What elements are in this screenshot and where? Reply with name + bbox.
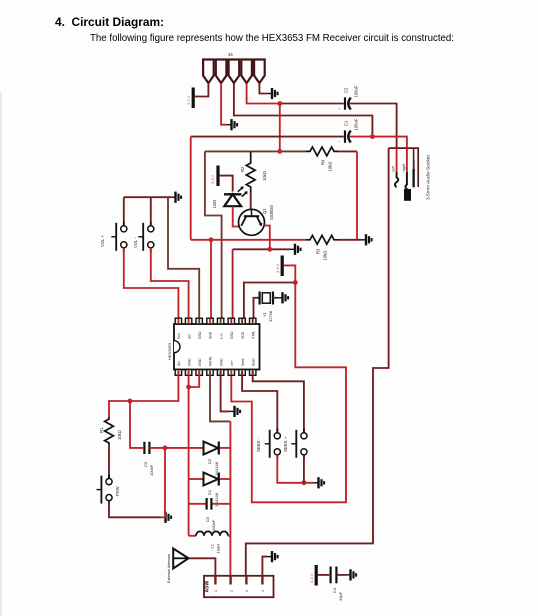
svg-text:sleeve: sleeve [411, 160, 416, 171]
wire VOL rail to T3 [168, 197, 199, 322]
resistor R3 [306, 235, 338, 260]
junction C1 row [370, 134, 375, 139]
wire node down to C3 [130, 401, 143, 448]
svg-text:VDD: VDD [241, 331, 245, 339]
svg-text:10kΩ: 10kΩ [323, 251, 328, 261]
svg-text:D1: D1 [207, 489, 212, 495]
wire VDD bar to junction [284, 265, 296, 282]
wire B4 to right column [210, 371, 230, 421]
svg-text:GND: GND [230, 331, 234, 339]
svg-text:LED: LED [212, 200, 217, 208]
svg-text:C3: C3 [143, 461, 148, 467]
wire C3 to D2 [149, 447, 203, 449]
LED D3 [212, 186, 248, 208]
wire VOL ground rail [124, 196, 171, 198]
wire VOL- to T2 [151, 248, 189, 322]
wire 3.3V bar to C4 [318, 574, 329, 576]
ground at R3 [361, 234, 372, 245]
resistor R2 [240, 151, 267, 193]
transistor Q1 [239, 204, 275, 235]
wire B2 down [188, 371, 190, 536]
wire battery to J1 pin1 [195, 84, 209, 97]
svg-text:C5: C5 [205, 516, 210, 522]
svg-text:C4: C4 [332, 587, 337, 593]
svg-text:SS8050: SS8050 [269, 204, 274, 220]
svg-text:right: right [401, 163, 406, 171]
wire VDD down right loop [231, 283, 346, 503]
ground at J1 pin5 [267, 88, 278, 99]
diode D2 [204, 442, 220, 477]
svg-text:10uH: 10uH [216, 544, 221, 554]
crystal Y1 [254, 292, 278, 323]
inductor L1 [189, 531, 231, 553]
IC U1 HEX3653 [167, 318, 260, 375]
svg-text:XTAL: XTAL [251, 331, 255, 339]
junction B1 row [128, 399, 133, 404]
wire J1 pin2 to ground [221, 84, 226, 125]
svg-text:External Antenna: External Antenna [167, 553, 171, 583]
capacitor C2 [339, 85, 359, 111]
pushbutton PSW [97, 474, 121, 504]
svg-text:1N4148: 1N4148 [214, 492, 219, 507]
audio socket J2 [389, 148, 432, 201]
ground at VOL rail [171, 192, 182, 203]
power 3.3V LED bar [210, 166, 220, 187]
wire C3 junction to ground [161, 448, 166, 517]
capacitor C4 [331, 567, 343, 602]
svg-text:GND: GND [219, 358, 223, 366]
pushbutton VOL- [133, 222, 154, 252]
power 3.3V VDD bar [275, 256, 284, 277]
svg-text:3.3 V: 3.3 V [275, 263, 280, 273]
svg-text:R4: R4 [321, 159, 326, 165]
svg-text:C1: C1 [344, 120, 349, 126]
power 3.3V C4 bar [309, 565, 318, 586]
svg-text:100uF: 100uF [354, 85, 359, 97]
svg-text:PSW: PSW [115, 486, 120, 496]
wire B1 to R1 node [130, 371, 178, 401]
wire C2 to audio socket left [350, 104, 397, 149]
junction SEEK row [302, 480, 307, 485]
svg-text:Sedn: Sedn [251, 358, 255, 366]
ground at SEEK row [314, 477, 325, 488]
wire C1 row left [191, 136, 344, 138]
svg-text:VOL +: VOL + [100, 235, 105, 247]
wire R4 to rail [338, 150, 357, 152]
svg-text:HEX3653: HEX3653 [167, 342, 172, 360]
wire J1 pin4 to C2 row [247, 84, 280, 104]
svg-text:C2: C2 [344, 87, 349, 93]
wire right column [229, 421, 231, 575]
svg-text:GND: GND [198, 331, 202, 339]
junction emitter row [267, 247, 272, 252]
svg-text:led: led [187, 334, 191, 339]
svg-text:32768: 32768 [268, 310, 273, 322]
wire VOL+ top [123, 197, 125, 222]
svg-text:100nF: 100nF [149, 464, 154, 476]
wire C2 row [280, 103, 344, 105]
wire J1 pin5 to ground [259, 84, 267, 94]
svg-text:Q1: Q1 [262, 208, 267, 214]
svg-text:SND: SND [209, 331, 213, 339]
svg-text:4: 4 [261, 590, 265, 592]
wire node to R1 [109, 401, 130, 417]
wire R3 to ground [338, 239, 361, 241]
svg-text:2: 2 [229, 590, 233, 592]
svg-text:10kΩ: 10kΩ [328, 162, 333, 172]
wire VOL+ to T1 [124, 248, 179, 322]
svg-text:GND: GND [198, 358, 202, 366]
pushbutton SEEK+ [283, 429, 307, 459]
capacitor C3 [143, 442, 154, 476]
ground at C4 [346, 569, 357, 580]
resistor R4 [306, 147, 338, 172]
svg-text:-: - [339, 106, 341, 112]
pushbutton VOL+ [100, 222, 127, 252]
wire emitter row to T6 [232, 249, 234, 322]
wire R2R4 row [205, 150, 306, 152]
pushbutton SEEK- [256, 429, 280, 459]
capacitor C1 [339, 118, 359, 144]
connector ASW [204, 576, 274, 597]
ground at PSW C3 [161, 512, 172, 523]
svg-text:L-in: L-in [219, 333, 223, 339]
svg-text:L1: L1 [210, 543, 215, 548]
scan edge artifact [0, 92, 2, 616]
ground at B5 [230, 406, 241, 417]
wire main rail [191, 239, 306, 241]
svg-text:left: left [391, 165, 396, 171]
svg-text:ch+: ch+ [230, 360, 234, 366]
wire SEEK- to ground row [277, 455, 313, 483]
wire audio socket long left down to ASW3 [246, 148, 389, 576]
svg-text:SEEK +: SEEK + [283, 436, 288, 452]
wire R1 to PSW [108, 445, 110, 478]
svg-text:Ain: Ain [177, 361, 181, 366]
ground at ASW4 [267, 551, 278, 562]
wire rail to T4 [210, 240, 212, 322]
junction VDD [293, 280, 298, 285]
junction C3 row [163, 446, 168, 451]
wire C1 to audio socket right [350, 137, 407, 149]
wire emitter row to ground [233, 248, 290, 250]
junction C2 row [277, 101, 282, 106]
heading [55, 15, 164, 29]
svg-text:-: - [339, 139, 341, 145]
svg-text:100nF: 100nF [211, 519, 216, 531]
svg-text:Y1: Y1 [262, 311, 267, 317]
capacitor C5 [189, 498, 231, 531]
svg-text:R1: R1 [99, 427, 104, 433]
ground at J1 pin2 [227, 119, 238, 130]
wire PSW to ground [109, 501, 161, 518]
junction R2R4 row [277, 149, 282, 154]
wire C4 to ground [338, 574, 346, 576]
wire B8 to SEEK+ [253, 371, 304, 431]
wire B3 to B2 [189, 371, 200, 387]
svg-text:SEEK -: SEEK - [256, 437, 261, 452]
svg-text:VOL -: VOL - [133, 237, 138, 248]
connector J1 pin shapes [203, 60, 265, 84]
junction rail T4 [209, 237, 214, 242]
svg-text:100uF: 100uF [354, 118, 359, 130]
svg-text:3.3 V: 3.3 V [210, 174, 215, 184]
svg-text:Seek: Seek [241, 358, 245, 366]
wire VOL- top [150, 197, 152, 222]
svg-text:3.3 V: 3.3 V [186, 95, 191, 105]
wire SEEK+ bottom [303, 455, 305, 483]
wire T5 loop [205, 151, 222, 322]
svg-text:D2: D2 [207, 458, 212, 464]
antenna AE1 [167, 549, 189, 584]
wire C1 row down to rail [190, 137, 192, 240]
wire LED to Q1 [233, 206, 239, 226]
wire B5 to ground [221, 371, 230, 411]
power 3.3V battery bar [186, 88, 195, 109]
wire R2 to Q1 [250, 193, 252, 210]
wire ASW4 to ground [262, 557, 267, 576]
svg-text:MUTE: MUTE [209, 356, 213, 366]
wire VDD row to T7 [244, 283, 295, 323]
svg-text:1: 1 [214, 590, 218, 592]
ground at crystal [278, 292, 289, 303]
wire Q1 emitter down [264, 226, 270, 250]
wire antenna to ASW1 [189, 558, 216, 576]
diode D1 [189, 473, 231, 508]
wire B7 to SEEK- [242, 371, 277, 431]
resistor R1 [99, 417, 122, 445]
subtitle [90, 33, 454, 44]
svg-text:3: 3 [245, 590, 249, 592]
junction B2 B3 [186, 385, 191, 390]
svg-text:GND: GND [187, 358, 191, 366]
svg-text:R3: R3 [316, 248, 321, 254]
svg-text:3.5mm Audio Socket: 3.5mm Audio Socket [426, 155, 432, 200]
wire 3.3V to LED [220, 176, 233, 192]
svg-text:R2: R2 [240, 166, 245, 172]
svg-text:45: 45 [228, 52, 233, 57]
svg-text:10kΩ: 10kΩ [117, 430, 122, 440]
svg-text:ASW: ASW [205, 581, 211, 593]
svg-text:33pF: 33pF [338, 591, 343, 601]
wire J1 pin3 to node down right [234, 84, 373, 137]
wire vertical from C2 row to R2R4 row [279, 104, 281, 152]
wire D2 to right column [220, 447, 231, 449]
svg-text:Vch: Vch [177, 333, 181, 339]
svg-text:3.3 V: 3.3 V [309, 573, 314, 583]
svg-text:10kΩ: 10kΩ [262, 171, 267, 181]
ground at emitter row [290, 244, 301, 255]
